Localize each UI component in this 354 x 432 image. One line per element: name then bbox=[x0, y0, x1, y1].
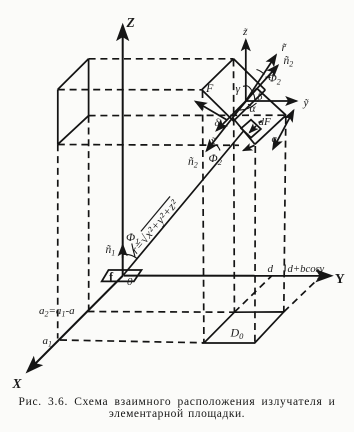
lower square (side a) edge upper-left bbox=[233, 88, 257, 117]
angle arc alpha bbox=[239, 103, 257, 110]
X axis bbox=[28, 276, 124, 372]
lower square edge lower-left bbox=[233, 118, 255, 145]
b dimension arrow lower (near lower square bottom vertex) bbox=[243, 145, 254, 150]
svg-text:β: β bbox=[257, 92, 263, 103]
dashed diagonal from D0 top-right corner to Y axis bbox=[284, 276, 322, 312]
svg-text:x̃: x̃ bbox=[210, 135, 217, 147]
svg-text:ñ1: ñ1 bbox=[106, 244, 116, 258]
angle arc Phi1 at origin bbox=[123, 254, 137, 258]
a dimension line with both arrowheads bbox=[273, 111, 294, 150]
svg-text:a: a bbox=[272, 133, 278, 145]
box left face: front vertical edge bbox=[57, 89, 59, 144]
square F edge top-right bbox=[234, 59, 266, 90]
dashed horizontal from X tick a2 to D0 top-left corner bbox=[88, 311, 235, 314]
svg-text:Y: Y bbox=[335, 271, 345, 286]
box left face: back vertical edge bbox=[88, 59, 90, 116]
svg-text:D0: D0 bbox=[230, 326, 245, 342]
r line from origin O to elementary area dF bbox=[123, 131, 244, 276]
box front-bottom dashed edge bbox=[58, 144, 239, 147]
box left face: top edge bbox=[58, 59, 89, 90]
dashed horizontal from X tick a1 to D0 bottom-left corner bbox=[60, 340, 204, 343]
lower square edge lower-right bbox=[255, 115, 286, 144]
gamma leader dash bbox=[243, 85, 247, 88]
dashed vertical from square F left vertex down to D0 bottom-left corner bbox=[203, 91, 204, 343]
svg-text:d: d bbox=[268, 263, 274, 275]
svg-text:ñ2: ñ2 bbox=[188, 156, 198, 170]
lower square edge upper-right bbox=[257, 88, 286, 115]
svg-text:dF: dF bbox=[259, 116, 272, 128]
angle arc Phi2 upper bbox=[257, 70, 265, 75]
square F edge top-left bbox=[202, 59, 234, 90]
box front-top dashed edge to square F left vertex bbox=[58, 89, 202, 91]
Y axis bbox=[124, 275, 331, 277]
svg-text:Φ2: Φ2 bbox=[209, 151, 223, 167]
dashed vertical from lower square right vertex down to D0 top-right corner bbox=[284, 117, 286, 312]
aperture f parallelogram at origin bbox=[102, 270, 142, 281]
alpha leader dash bbox=[248, 104, 251, 105]
b dimension arrow upper (near F left vertex) bbox=[196, 102, 228, 121]
Phi2 upper leader dash bbox=[266, 76, 271, 79]
svg-text:Z: Z bbox=[126, 15, 135, 30]
svg-text:F: F bbox=[205, 81, 214, 95]
Phi1 leader line bbox=[132, 244, 135, 257]
svg-text:r=√x²+y²+z²: r=√x²+y²+z² bbox=[128, 197, 181, 257]
local y~ axis bbox=[246, 100, 297, 102]
square F edge bottom-left bbox=[202, 90, 234, 121]
n2 upper half toward n2 arrow bbox=[246, 66, 278, 102]
dashed vertical from square F top vertex down to D0 top-left corner bbox=[233, 60, 236, 313]
r~ direction arrow at top bbox=[246, 55, 276, 101]
local z~ axis bbox=[245, 40, 247, 101]
D0 area parallelogram bbox=[204, 312, 284, 343]
svg-text:z̃: z̃ bbox=[242, 26, 248, 38]
svg-text:γ: γ bbox=[236, 84, 241, 96]
caption bbox=[0, 396, 354, 420]
svg-text:Φ2: Φ2 bbox=[268, 73, 281, 87]
dashed diagonal from D0 top-left corner to Y axis bbox=[234, 276, 272, 313]
dashed vertical from lower square bottom vertex down to D0 bottom-right corner bbox=[254, 146, 256, 343]
local x~ axis bbox=[217, 101, 246, 131]
n2 normal line through local origin, arrows both ends bbox=[207, 101, 246, 151]
box back-bottom dashed edge to lower square right vertex bbox=[89, 114, 286, 116]
angle arc Phi2 lower bbox=[216, 145, 220, 151]
Z axis bbox=[122, 26, 124, 276]
svg-text:0: 0 bbox=[127, 276, 133, 288]
svg-text:r̃: r̃ bbox=[282, 42, 288, 54]
dF element small square bbox=[241, 120, 261, 138]
dashed vertical from box back edge down to X axis point a2 bbox=[88, 116, 90, 310]
svg-text:a2=a1-a: a2=a1-a bbox=[39, 305, 75, 319]
svg-text:ñ2: ñ2 bbox=[284, 55, 294, 69]
svg-text:X: X bbox=[12, 376, 23, 391]
tick before d+bcosgamma bbox=[284, 265, 286, 272]
angle arc gamma bbox=[246, 86, 252, 92]
n1 normal arrowhead on Z axis bbox=[122, 245, 124, 258]
dF label leader bbox=[259, 122, 263, 123]
svg-text:d+bcosγ: d+bcosγ bbox=[288, 264, 326, 275]
svg-text:a1: a1 bbox=[43, 335, 53, 349]
dashed vertical from box front edge down to X axis point a1 bbox=[57, 144, 59, 338]
svg-text:α: α bbox=[250, 103, 257, 115]
box left face: bottom edge bbox=[58, 116, 89, 145]
box back-top dashed edge to square F top vertex bbox=[89, 58, 234, 60]
angle arc beta bbox=[253, 93, 255, 100]
square F edge bottom-right bbox=[234, 90, 266, 121]
dF pointer arrow bbox=[250, 126, 257, 133]
svg-text:ỹ: ỹ bbox=[303, 97, 310, 109]
